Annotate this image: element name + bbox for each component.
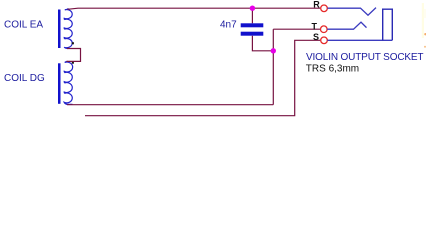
svg-text:4n7: 4n7: [220, 20, 237, 31]
pin circle S: [321, 37, 328, 44]
svg-text:T: T: [312, 22, 318, 32]
capacitor C1 plate top: [241, 23, 264, 27]
inductor L2 core bar (COIL DG): [58, 63, 61, 104]
svg-text:COIL DG: COIL DG: [4, 73, 45, 84]
pin circle T: [321, 26, 328, 33]
wire T horizontal: [273, 28, 320, 30]
wire cap bottom branch: [252, 36, 273, 51]
junction dot top rail: [250, 6, 255, 11]
polarity dot L1: [72, 42, 74, 44]
artifact orange dot 1: [424, 33, 426, 35]
socket tip contact (T): [327, 22, 366, 29]
artifact pale yellow stripe right edge: [422, 3, 424, 38]
wire top rail: [68, 8, 321, 9]
svg-text:S: S: [313, 32, 319, 42]
polarity dot L2: [72, 62, 74, 64]
svg-text:VIOLIN OUTPUT SOCKET: VIOLIN OUTPUT SOCKET: [306, 52, 423, 63]
jack plug body: [383, 9, 393, 40]
svg-text:R: R: [313, 0, 320, 10]
socket ring contact (R): [328, 8, 377, 16]
socket sleeve wire (S): [328, 39, 393, 41]
capacitor C1 plate bottom: [241, 32, 264, 36]
wire S branch: [85, 40, 320, 115]
wire cap top branch: [251, 8, 253, 23]
wire series jog L1 bottom to L2 top: [67, 49, 81, 62]
junction dot cap bottom: [271, 48, 276, 53]
inductor L1 core bar (COIL EA): [58, 10, 61, 49]
wire T branch vertical: [272, 29, 274, 105]
pin circle R: [321, 5, 328, 12]
wire bottom rail A: [67, 104, 273, 106]
inductor L2 winding (COIL DG): [64, 61, 72, 104]
artifact orange dot 2: [424, 46, 426, 48]
inductor L1 winding (COIL EA): [64, 9, 72, 49]
svg-text:TRS 6,3mm: TRS 6,3mm: [306, 64, 359, 75]
svg-text:COIL EA: COIL EA: [4, 19, 43, 30]
